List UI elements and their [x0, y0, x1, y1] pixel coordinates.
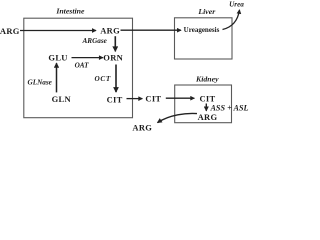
wire arrow ARG(intestine) to Ureagenesis: [121, 29, 182, 31]
wire arrow GLN to GLU (GLNase): [56, 63, 58, 92]
svg-text:Liver: Liver: [197, 7, 216, 16]
svg-text:CIT: CIT: [199, 93, 215, 103]
wire arrow ARG to ORN (ARGase): [114, 36, 116, 51]
svg-text:ARG: ARG: [0, 26, 20, 36]
intestine box: [24, 18, 133, 118]
wire curved arrow ARG(kidney) to ARG(blood, bottom): [158, 113, 198, 122]
wire arrow CIT(blood) to CIT(kidney): [166, 97, 195, 99]
liver box: [175, 18, 233, 59]
svg-text:CIT: CIT: [107, 94, 123, 104]
svg-text:OAT: OAT: [75, 62, 90, 70]
svg-text:Urea: Urea: [229, 0, 244, 8]
wire arrow ARG(left) to ARG(intestine): [20, 30, 96, 32]
svg-text:ARG: ARG: [132, 122, 152, 132]
kidney box: [175, 85, 232, 123]
svg-text:Kidney: Kidney: [195, 75, 219, 84]
svg-text:GLU: GLU: [48, 53, 67, 63]
svg-text:Intestine: Intestine: [55, 7, 85, 16]
wire arrow CIT to ARG in kidney (ASS+ASL): [205, 104, 207, 111]
svg-text:GLNase: GLNase: [28, 78, 53, 86]
svg-text:ARG: ARG: [100, 25, 120, 35]
svg-text:GLN: GLN: [52, 94, 72, 104]
svg-text:OCT: OCT: [94, 75, 110, 83]
svg-text:ARGase: ARGase: [82, 37, 108, 45]
svg-text:ARG: ARG: [198, 112, 218, 122]
wire arrow ORN to CIT (OCT): [115, 65, 117, 93]
svg-text:Ureagenesis: Ureagenesis: [184, 26, 220, 34]
svg-text:ORN: ORN: [103, 53, 123, 63]
wire arrow CIT(intestine) to CIT(blood): [127, 98, 143, 100]
wire curved arrow Ureagenesis to Urea: [223, 10, 240, 30]
svg-text:CIT: CIT: [145, 93, 161, 103]
wire arrow GLU to ORN (OAT): [72, 57, 103, 59]
